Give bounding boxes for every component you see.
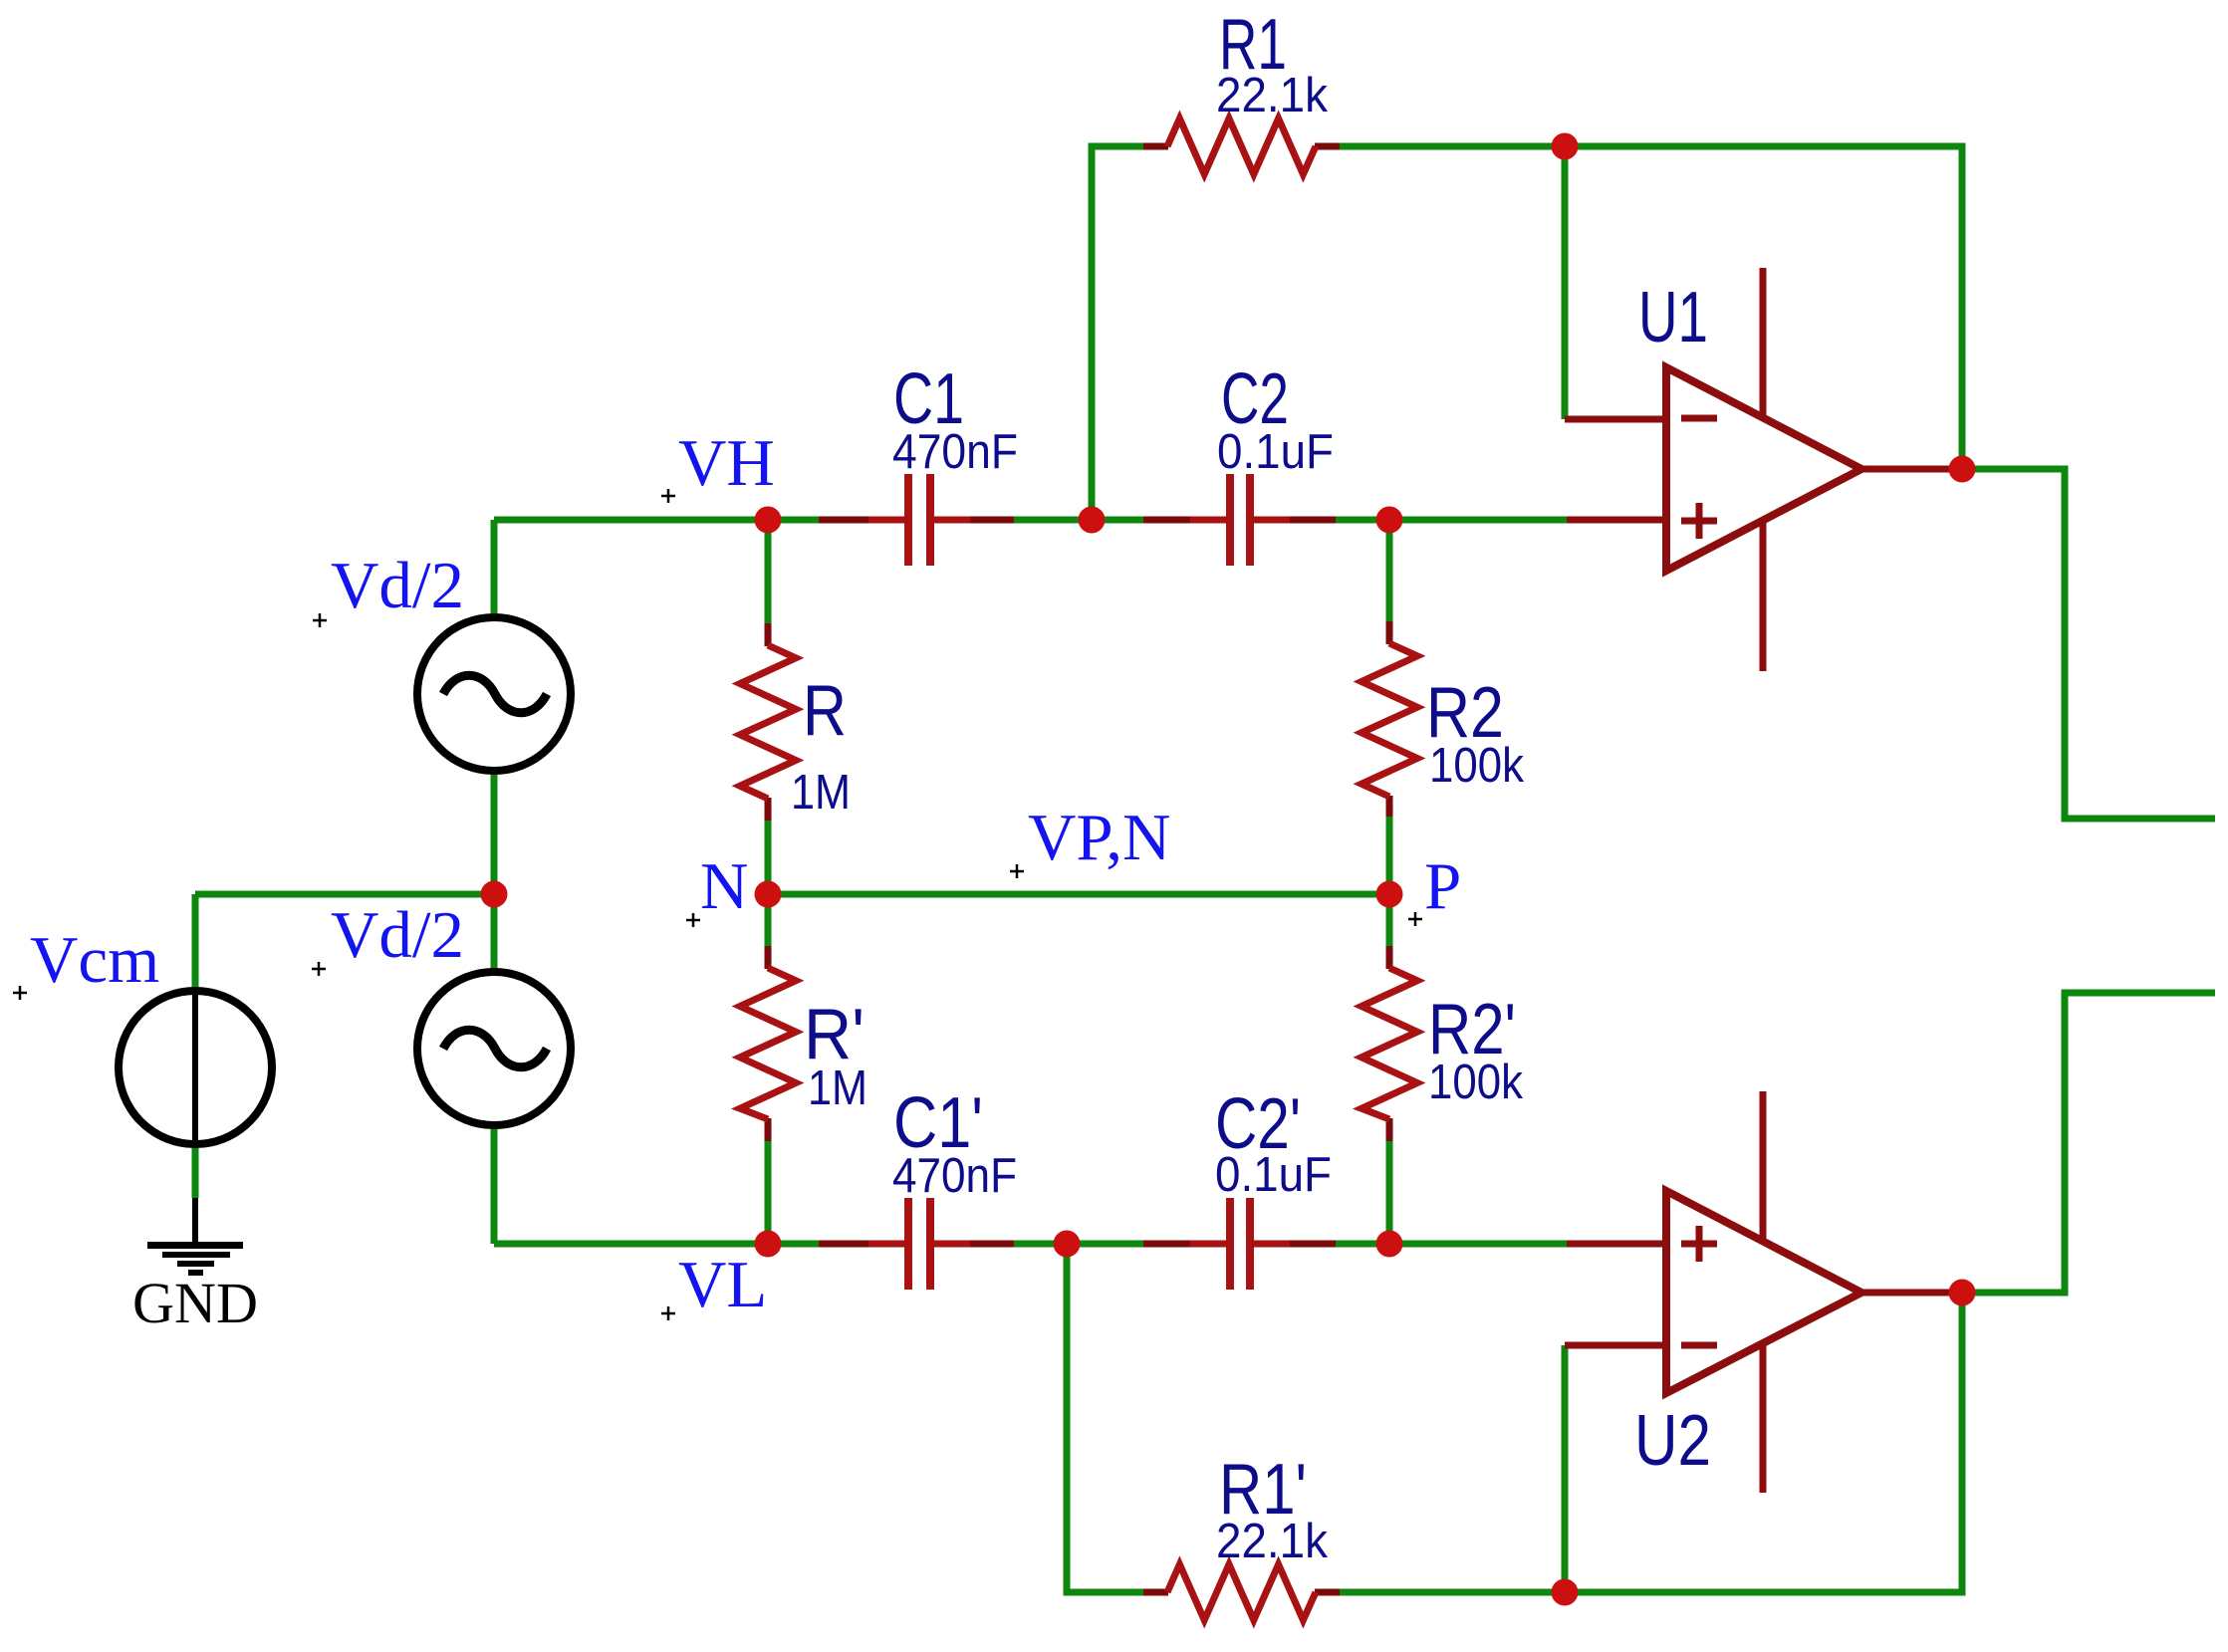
- svg-text:VL: VL: [678, 1248, 767, 1321]
- svg-text:VP,N: VP,N: [1028, 801, 1170, 874]
- svg-text:Vd/2: Vd/2: [331, 898, 464, 972]
- svg-text:1M: 1M: [808, 1062, 867, 1115]
- svg-text:Vcm: Vcm: [30, 923, 159, 997]
- svg-text:22.1k: 22.1k: [1216, 1515, 1328, 1568]
- svg-text:R: R: [803, 671, 847, 751]
- svg-text:U2: U2: [1634, 1401, 1711, 1481]
- svg-text:470nF: 470nF: [892, 1149, 1017, 1203]
- svg-text:P: P: [1424, 849, 1461, 923]
- svg-text:GND: GND: [132, 1271, 258, 1335]
- svg-text:VH: VH: [678, 426, 775, 500]
- svg-text:Vd/2: Vd/2: [331, 549, 464, 622]
- svg-text:N: N: [700, 849, 748, 923]
- svg-text:22.1k: 22.1k: [1216, 69, 1328, 122]
- svg-text:0.1uF: 0.1uF: [1215, 1148, 1332, 1202]
- svg-text:100k: 100k: [1429, 739, 1524, 793]
- svg-text:1M: 1M: [791, 766, 851, 820]
- svg-text:470nF: 470nF: [892, 425, 1018, 479]
- svg-text:100k: 100k: [1428, 1056, 1523, 1109]
- svg-text:0.1uF: 0.1uF: [1217, 425, 1334, 479]
- svg-text:U1: U1: [1638, 278, 1708, 357]
